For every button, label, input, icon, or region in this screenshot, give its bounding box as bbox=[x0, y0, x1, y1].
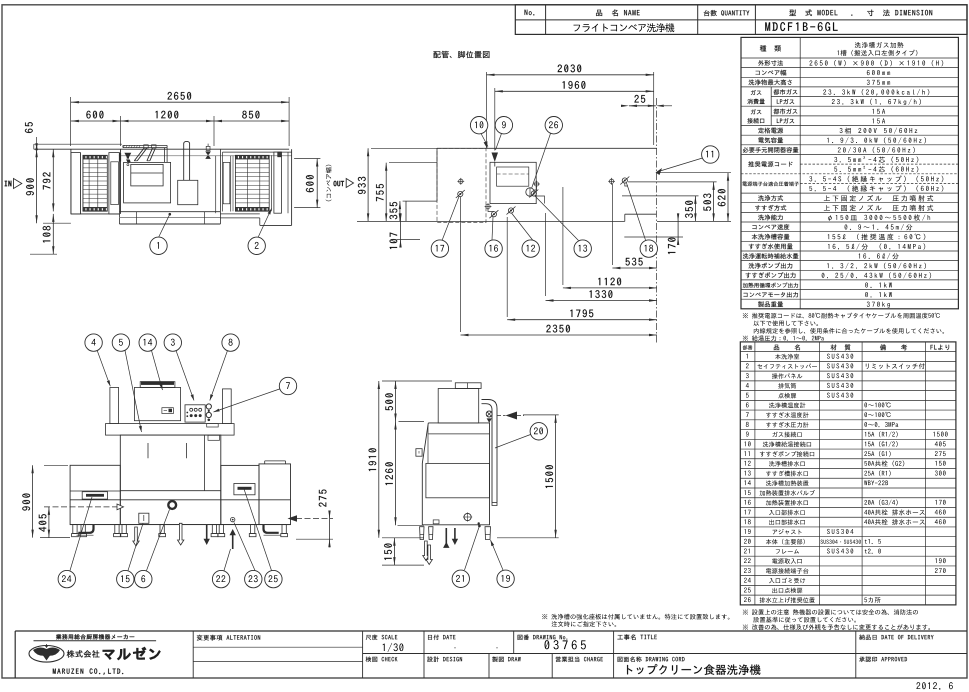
design label bbox=[427, 657, 462, 662]
side inlet arrow bbox=[506, 412, 518, 420]
alteration box rows bbox=[193, 646, 362, 648]
drawing number label bbox=[518, 635, 568, 640]
elev chamber body bbox=[120, 435, 221, 524]
plan left conveyor section bbox=[70, 149, 72, 214]
side dim 1260 bbox=[395, 422, 397, 526]
plan dim 900 bbox=[36, 149, 38, 223]
plan bottom band bbox=[119, 214, 121, 224]
elev small vent right bbox=[207, 424, 219, 427]
plan wash tank bbox=[124, 162, 171, 203]
side legs bbox=[420, 527, 424, 540]
elev dim 405 bbox=[48, 507, 50, 538]
side inlet valve symbol bbox=[486, 411, 492, 417]
plan dim 65 bbox=[33, 144, 35, 149]
spec table texts bbox=[760, 45, 781, 51]
piping dim 25 bbox=[629, 105, 656, 107]
side dim 1500 bbox=[523, 414, 559, 416]
piping footprint outline bbox=[437, 147, 657, 149]
elev balloons bottom bbox=[70, 497, 92, 571]
drawing name topclean bbox=[627, 664, 760, 675]
model number MDCF1B-6GL bbox=[765, 22, 837, 31]
piping balloon26 target circle bbox=[526, 188, 534, 196]
header label QUANTITY bbox=[704, 10, 750, 16]
header label No. bbox=[525, 10, 535, 16]
side door band bbox=[426, 463, 490, 497]
elev dim 900 bbox=[44, 464, 68, 466]
maruzen logotype bbox=[103, 647, 160, 659]
plan right end bbox=[287, 152, 289, 213]
piping dim 1960 bbox=[494, 88, 496, 151]
plan balloon 1 bbox=[159, 214, 170, 237]
side floor arrows bbox=[423, 541, 429, 561]
elev heater box bbox=[134, 388, 180, 421]
elev legs bbox=[73, 525, 77, 534]
spec notes bbox=[743, 313, 940, 319]
plan dim 2650 bbox=[70, 97, 72, 146]
title block grid bbox=[15, 630, 967, 632]
elev sensor circles balloon8 bbox=[206, 404, 211, 409]
approved label bbox=[859, 657, 907, 662]
elev small box balloon15 bbox=[139, 513, 149, 523]
side note bbox=[542, 614, 729, 620]
header label MODEL/DIMENSION bbox=[789, 9, 932, 16]
side heater box bbox=[438, 389, 479, 423]
elev left table bbox=[70, 465, 120, 524]
plan OUT arrow bbox=[334, 181, 344, 186]
piping left dims bbox=[371, 147, 437, 149]
plan small valve symbol bbox=[207, 144, 209, 147]
check label bbox=[366, 657, 398, 662]
parts table rows bbox=[746, 354, 747, 359]
side body top band bbox=[422, 423, 489, 525]
plan right conveyor section bbox=[223, 151, 292, 153]
plan dim 600 conveyor width bbox=[294, 158, 320, 160]
side drain pipe bbox=[482, 400, 498, 503]
piping dim 2030 bbox=[486, 72, 488, 148]
parts notes bbox=[743, 609, 918, 615]
elev hood posts bbox=[110, 388, 119, 424]
elev dashed level 405 bbox=[44, 506, 117, 508]
date label bbox=[428, 635, 455, 640]
plan IN arrow bbox=[5, 181, 12, 186]
piping out arrow note 11 bbox=[656, 168, 663, 175]
elev control panel bbox=[185, 405, 205, 422]
plan right conveyor belt hatch bbox=[235, 155, 269, 159]
piping connector bends bbox=[488, 209, 494, 212]
plan center pipe and box bbox=[183, 143, 185, 180]
product name bbox=[574, 23, 675, 32]
charge label bbox=[556, 657, 603, 662]
piping balloons bottom bbox=[442, 197, 459, 241]
draw label bbox=[492, 657, 520, 662]
company name kabushiki bbox=[67, 650, 100, 657]
side balloons bbox=[495, 435, 531, 449]
piping chamber dashed box bbox=[437, 148, 486, 222]
plan wash chamber bbox=[120, 149, 122, 214]
piping view title bbox=[433, 51, 489, 58]
drawing number 03765 bbox=[544, 640, 585, 649]
title label bbox=[617, 634, 656, 640]
maruzen logo bird bbox=[29, 646, 64, 663]
elev detergent circle bbox=[168, 501, 176, 509]
piping tank footprint bbox=[490, 162, 536, 203]
side dim 1910 bbox=[382, 380, 452, 382]
header table grid bbox=[515, 5, 967, 35]
delivery label bbox=[859, 635, 933, 640]
plan slanted tubes bbox=[134, 148, 144, 161]
elev base line bbox=[70, 499, 290, 501]
elev floor arrows bbox=[133, 527, 139, 546]
plan balloon 2 bbox=[258, 209, 272, 238]
side left panel detail bbox=[416, 449, 422, 457]
piping bottom dims bbox=[611, 184, 613, 265]
piping symbols bbox=[459, 179, 463, 183]
piping arrows gas/water inlets bbox=[484, 141, 488, 148]
piping right dims bbox=[657, 172, 731, 174]
parts table header bbox=[743, 345, 753, 350]
side dim 150 bbox=[393, 538, 395, 565]
plan right corner detail bbox=[278, 152, 282, 157]
side bottom details bbox=[464, 513, 471, 520]
alteration label bbox=[197, 635, 260, 641]
plan dim 108 bbox=[52, 214, 54, 254]
elev small circle balloon22/23 bbox=[231, 517, 235, 521]
piping balloons top bbox=[481, 134, 488, 147]
drawing name label bbox=[618, 657, 685, 662]
spec table grid bbox=[741, 37, 958, 308]
elev dim 275 bbox=[296, 518, 333, 520]
plan chamber edge dark mark bbox=[119, 153, 121, 162]
elev right table bbox=[221, 465, 259, 524]
maruzen co ltd bbox=[53, 668, 123, 674]
plan left conveyor belt hatch bbox=[83, 155, 107, 159]
elev balloons top bbox=[97, 350, 110, 386]
plan dims 600 1200 850 bbox=[120, 116, 122, 146]
date 2012.6 bbox=[916, 682, 952, 689]
plan tank inlet stub bbox=[164, 148, 166, 163]
plan dim 792 bbox=[52, 149, 54, 211]
side dim 500 bbox=[395, 381, 397, 422]
plan overhead pipe bbox=[123, 144, 167, 146]
plan left conveyor right panel bbox=[109, 153, 120, 214]
plan view machine outline bbox=[34, 143, 122, 145]
header label NAME bbox=[596, 9, 640, 16]
plan funnel bbox=[124, 153, 131, 159]
parts table grid bbox=[740, 342, 956, 605]
elev canopy band bbox=[106, 424, 235, 436]
scale label bbox=[366, 635, 397, 640]
elev drain hoses bbox=[78, 525, 93, 533]
maker slogan bbox=[56, 634, 134, 639]
